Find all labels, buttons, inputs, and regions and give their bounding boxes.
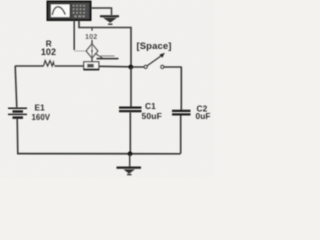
ground (bottom) stem bbox=[129, 154, 131, 167]
wire resistor to ammeter bbox=[54, 65, 83, 67]
battery E1 bbox=[8, 108, 27, 117]
svg-text:50uF: 50uF bbox=[142, 111, 162, 121]
wire left vertical bottom bbox=[16, 119, 19, 154]
arrow annotation bbox=[95, 53, 119, 58]
wire scope to top ground bbox=[91, 8, 112, 15]
ground (bottom) bbox=[117, 168, 142, 175]
ground (top right) bbox=[100, 16, 119, 24]
wire ammeter to node bbox=[99, 65, 131, 68]
wire C2 branch bottom bbox=[180, 116, 182, 154]
svg-text:[Space]: [Space] bbox=[136, 41, 171, 52]
oscilloscope XSC1 bbox=[48, 2, 91, 21]
wire lead A to fuse bbox=[74, 50, 87, 52]
ammeter (box on wire) bbox=[84, 62, 99, 70]
fuse top lead bbox=[91, 28, 93, 45]
switch J1 bbox=[133, 53, 182, 69]
svg-text:102: 102 bbox=[41, 47, 56, 57]
wire C2 branch top bbox=[180, 67, 182, 110]
wire scope lead B to node bbox=[79, 20, 131, 66]
svg-text:C1: C1 bbox=[145, 101, 156, 111]
bottom junction dot bbox=[128, 151, 133, 156]
bottom wire bbox=[17, 153, 181, 155]
wire left vertical top bbox=[15, 66, 17, 107]
wire C1 branch bottom bbox=[129, 113, 131, 154]
wire left top bbox=[15, 65, 44, 67]
fuse bottom lead bbox=[91, 58, 93, 63]
fuse F1 (diamond) bbox=[86, 44, 98, 58]
wire C1 branch top bbox=[130, 67, 132, 107]
svg-text:160V: 160V bbox=[32, 113, 51, 122]
label 102 (fuse value) bbox=[85, 31, 98, 41]
scan noise overlay bbox=[0, 0, 214, 177]
svg-text:0uF: 0uF bbox=[196, 111, 211, 121]
scope lead A wire bbox=[73, 20, 75, 50]
svg-text:E1: E1 bbox=[35, 102, 46, 112]
capacitor C1 bbox=[119, 108, 142, 112]
resistor R (zigzag) bbox=[44, 61, 55, 66]
capacitor C2 bbox=[172, 111, 191, 115]
svg-text:102: 102 bbox=[85, 32, 97, 41]
node dot (top junction) bbox=[128, 65, 133, 70]
